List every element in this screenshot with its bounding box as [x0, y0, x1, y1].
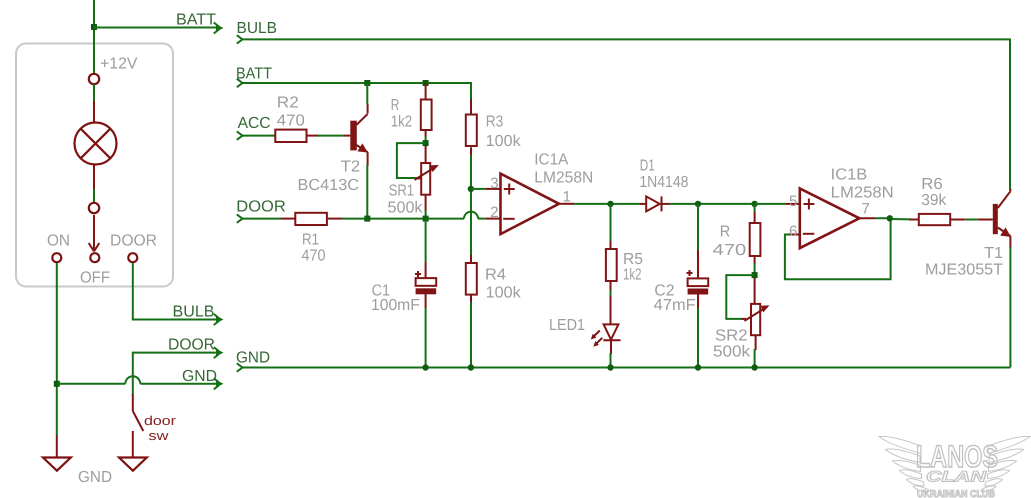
node junction BATT R 1k2 [423, 80, 429, 86]
wire: R3 to pin3 node [470, 155, 472, 255]
wire: R5 to LED1 [610, 290, 612, 297]
svg-text:door: door [144, 413, 177, 428]
wire: R2 to T2 base [318, 135, 344, 137]
LED LED1 [591, 296, 621, 354]
svg-text:MJE3055T: MJE3055T [925, 262, 1003, 279]
svg-text:GND: GND [78, 469, 112, 486]
capacitor C2 47mF [687, 204, 709, 368]
wire: T2 emitter to DOOR rail [366, 165, 368, 219]
node junction R 470 second [751, 201, 757, 207]
lamp bulb symbol [75, 123, 117, 165]
connector circle: OFF position [90, 253, 99, 262]
wire: ON stem down [56, 263, 58, 435]
wire: T1 emitter down [1009, 247, 1011, 368]
wire: SR1 bottom to DOOR rail [425, 210, 427, 219]
wire: IC1B feedback loop [785, 218, 891, 279]
svg-text:5: 5 [789, 193, 797, 210]
arrow head GND flag [214, 378, 224, 389]
svg-text:GND: GND [236, 350, 270, 367]
resistor R2 [275, 130, 318, 142]
connector chevron BATT [237, 79, 243, 87]
wire: door switch top stem [132, 374, 134, 395]
wire: SR2 wiper link [726, 275, 754, 319]
svg-text:470: 470 [302, 248, 326, 265]
diode D1 1N4148 [639, 196, 670, 211]
svg-text:R3: R3 [486, 114, 504, 131]
resistor R 470 second [750, 204, 761, 264]
svg-text:7: 7 [862, 201, 870, 218]
wire: DOOR rail across [342, 218, 464, 220]
wire: R 1k2 bottom to SR1 [425, 136, 427, 146]
svg-text:CLAN: CLAN [926, 469, 988, 486]
wire: junction to R6 [891, 218, 911, 220]
connector circle: +12V terminal [89, 74, 99, 84]
resistor R 1k2 [421, 83, 432, 137]
svg-text:R6: R6 [921, 176, 943, 193]
svg-text:1k2: 1k2 [391, 114, 413, 131]
svg-text:OFF: OFF [80, 270, 110, 287]
svg-text:IC1A: IC1A [534, 152, 568, 169]
svg-text:R4: R4 [485, 266, 506, 283]
svg-text:DOOR: DOOR [168, 337, 215, 354]
connector circle: selector common [89, 203, 99, 213]
wire: R470 to SR2 node [754, 263, 756, 278]
node junction DOOR SR1 C1 [423, 216, 429, 222]
node junction GND tap [54, 381, 60, 387]
pin wire to left ground [56, 435, 58, 457]
svg-text:500k: 500k [388, 200, 424, 217]
svg-text:470: 470 [713, 242, 747, 259]
wire: BULB net top rail [242, 39, 1010, 190]
node junction GND LED1 [607, 364, 613, 370]
svg-text:+12V: +12V [100, 56, 138, 73]
wire: DOOR net corner to flag [133, 353, 216, 374]
node junction SR2 wiper [752, 272, 758, 278]
svg-text:500k: 500k [713, 344, 751, 361]
svg-text:ON: ON [47, 233, 70, 250]
svg-text:R2: R2 [277, 94, 299, 111]
wire: pin5 link [755, 203, 786, 205]
transistor T2 BC413C npn [344, 104, 368, 166]
wire: GND net continue [140, 383, 216, 385]
arrow head DOOR flag [214, 347, 224, 358]
node junction BATT T2 collector [364, 80, 370, 86]
svg-text:LM258N: LM258N [831, 185, 894, 202]
svg-text:BC413C: BC413C [298, 177, 360, 194]
svg-text:GND: GND [182, 368, 217, 385]
wire: BATT rail [242, 83, 471, 100]
op-amp IC1A LM258N [486, 174, 575, 235]
node junction GND C1 [422, 364, 428, 370]
resistor R6 39k [909, 214, 965, 225]
svg-text:100mF: 100mF [371, 297, 420, 314]
svg-text:D1: D1 [640, 158, 655, 175]
wire below 12V terminal [93, 84, 95, 101]
svg-text:T1: T1 [984, 245, 1003, 262]
capacitor C1 100mF [415, 219, 436, 368]
ground symbol door switch [119, 458, 147, 471]
op-amp IC1B LM258N [786, 189, 876, 249]
svg-text:R5: R5 [623, 251, 643, 268]
wire: lamp to selector common [93, 189, 95, 202]
potentiometer SR2 500k [741, 278, 769, 350]
svg-text:ACC: ACC [238, 115, 271, 132]
connector circle: ON position [52, 253, 61, 262]
resistor R5 1k2 [606, 204, 617, 291]
arrow head BULB flag [214, 314, 224, 325]
svg-text:DOOR: DOOR [110, 233, 157, 250]
wire: T2 collector to BATT [366, 83, 368, 104]
svg-text:100k: 100k [486, 285, 522, 302]
svg-text:BATT: BATT [236, 66, 272, 83]
wire: BATT tap horizontal [94, 27, 216, 29]
wire: DOOR position stem to BULB flag [133, 263, 216, 320]
node junction GND C2 [695, 364, 701, 370]
wire: IC1B out to R6 [876, 217, 892, 219]
svg-text:IC1B: IC1B [831, 167, 868, 184]
pin wire lamp bottom [93, 165, 95, 190]
wire: LED1 to GND rail [610, 353, 612, 368]
svg-text:1k2: 1k2 [623, 267, 642, 284]
svg-text:6: 6 [789, 223, 797, 240]
connector chevron GND [237, 363, 243, 371]
svg-text:DOOR: DOOR [236, 199, 285, 216]
svg-text:BULB: BULB [237, 20, 278, 37]
resistor R4 100k [466, 255, 477, 303]
svg-text:UKRAINIAN CLUB: UKRAINIAN CLUB [917, 489, 995, 498]
wire: D1 to C2 node [670, 203, 755, 205]
wire: R6 to T1 base [965, 219, 978, 221]
potentiometer SR1 500k [415, 146, 439, 211]
selector arrow to OFF position [89, 215, 100, 251]
switch S door sw [133, 394, 144, 457]
svg-text:470: 470 [277, 112, 305, 129]
svg-text:BATT: BATT [176, 12, 216, 29]
svg-text:1N4148: 1N4148 [639, 174, 688, 191]
svg-text:R1: R1 [302, 232, 319, 249]
wire: IC1A out [574, 203, 639, 205]
wire: +12V feed vertical from top [93, 0, 95, 73]
node junction IC1A out R5 [607, 201, 613, 207]
frame: switch block rounded rectangle [16, 44, 173, 287]
svg-text:LM258N: LM258N [534, 170, 593, 187]
connector chevron ACC [237, 131, 243, 139]
wire: pin3 link [471, 188, 486, 190]
svg-text:SR2: SR2 [715, 328, 748, 345]
wire: DOOR rail to IC1A pin2 [478, 218, 486, 220]
connector circle: DOOR position [128, 253, 137, 262]
node junction GND SR2 [751, 364, 757, 370]
svg-text:47mF: 47mF [654, 297, 696, 314]
node junction GND R4 [468, 364, 474, 370]
wire: GND net from ON stem to flag with hop [57, 383, 126, 385]
svg-text:R: R [720, 224, 731, 241]
svg-text:39k: 39k [921, 192, 947, 209]
connector chevron DOOR [237, 214, 243, 222]
node junction at BATT tap [91, 24, 97, 30]
node junction DOOR T2 [364, 216, 370, 222]
wire: ACC to R2 [242, 135, 275, 137]
node junction IC1B out [887, 215, 893, 221]
transistor T1 MJE3055T npn [978, 189, 1011, 248]
connector chevron BULB [237, 35, 243, 43]
svg-text:BULB: BULB [173, 304, 215, 321]
node junction C2 [695, 201, 701, 207]
svg-text:1: 1 [563, 189, 571, 206]
node junction pin3 [468, 186, 474, 192]
svg-text:R: R [391, 97, 400, 114]
wire: DOOR to R1 [242, 218, 281, 220]
svg-text:T2: T2 [341, 158, 361, 175]
resistor R1 [281, 213, 342, 225]
node junction R1k2 SR1 wiper [423, 140, 429, 146]
watermark logo wings left [879, 436, 928, 491]
svg-text:100k: 100k [486, 133, 522, 150]
resistor R3 100k [466, 99, 477, 156]
svg-text:sw: sw [148, 428, 169, 443]
wire: GND main rail [242, 367, 1010, 369]
watermark logo wings right [981, 436, 1030, 491]
wire hop DOOR over R3-R4 column [464, 212, 478, 219]
svg-text:3: 3 [490, 175, 498, 192]
svg-text:SR1: SR1 [389, 183, 415, 200]
wire hop over door switch [125, 376, 140, 383]
arrow head BATT flag [214, 23, 224, 34]
svg-text:LED1: LED1 [549, 317, 585, 334]
svg-text:2: 2 [490, 204, 498, 221]
wire: SR1 wiper link [397, 143, 426, 178]
pin wire lamp top [93, 101, 95, 122]
wire: SR2 to GND rail [754, 349, 756, 368]
ground symbol left [43, 458, 71, 471]
wire: R4 to GND rail [470, 302, 472, 368]
